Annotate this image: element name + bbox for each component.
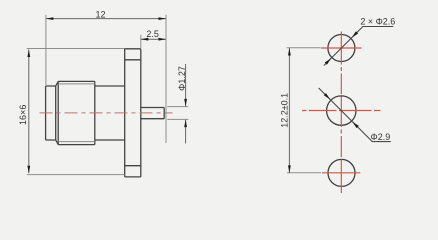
svg-text:16×6: 16×6 xyxy=(18,105,28,125)
svg-text:12.2±0.1: 12.2±0.1 xyxy=(279,93,289,128)
svg-text:Φ2.9: Φ2.9 xyxy=(371,132,391,142)
svg-text:2 × Φ2.6: 2 × Φ2.6 xyxy=(360,17,395,27)
svg-text:Φ1.27: Φ1.27 xyxy=(177,66,187,91)
svg-text:12: 12 xyxy=(95,10,105,20)
svg-text:2.5: 2.5 xyxy=(146,29,159,39)
